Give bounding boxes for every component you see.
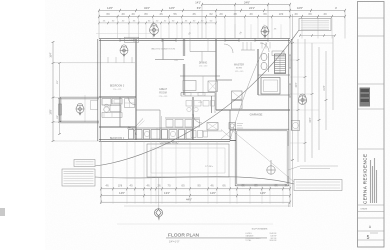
top dim extension lines [117, 18, 119, 39]
wall step garage [229, 130, 231, 141]
ceiling fan great room tag [150, 24, 159, 37]
interior wall mud west [215, 80, 217, 110]
bottom dim row 1 [101, 188, 290, 190]
right extension lines [290, 42, 333, 44]
left wing closet [91, 101, 98, 110]
interior wall garage north [216, 108, 290, 110]
interior wall masterbath west [256, 49, 258, 95]
interior wall hall left lower [134, 97, 136, 140]
bottom dim row 3 [101, 201, 290, 203]
title block divider 8 [358, 217, 385, 219]
bottom dim row 2 [101, 195, 290, 197]
bottom fixtures row [129, 130, 134, 140]
right dim line x326 [325, 51, 327, 130]
right dim line x319 [318, 47, 320, 150]
kitchen range [198, 93, 205, 96]
interior wall wc east [268, 53, 270, 72]
ceiling fan master tag [261, 26, 269, 38]
top dimension row 2 [99, 16, 345, 18]
fold line faint [117, 223, 273, 225]
mech pad outside [292, 121, 300, 131]
title block divider 1 [358, 17, 385, 19]
kitchen island [183, 81, 196, 91]
left wing wall west [58, 98, 60, 122]
hall wall segment [190, 51, 216, 53]
right dim line x292.5 [292, 14, 294, 207]
window marks right wall [289, 55, 291, 68]
wall bottom exterior [99, 138, 230, 140]
interior wall hall 2 [159, 110, 161, 140]
wall garage link [230, 140, 236, 142]
floor plan underline [166, 237, 267, 239]
title block stamp [360, 88, 371, 107]
right dim line x312 [311, 43, 313, 158]
top dimension row 0 [202, 4, 290, 6]
note box left large [62, 169, 95, 186]
door arc bedroom2 [128, 127, 136, 135]
wall garage top link [230, 129, 236, 131]
bottom dim right end tick [288, 203, 290, 207]
kitchen sink [185, 93, 191, 96]
interior wall hall [136, 109, 160, 111]
interior wall dining west lower [182, 64, 184, 95]
interior wall hall left [134, 39, 136, 97]
bath 2 fixtures [102, 99, 111, 106]
left wing wall south [60, 120, 99, 122]
leader to note [288, 166, 300, 170]
covered patio slab [147, 144, 229, 177]
window marks top wall [120, 39, 134, 41]
interior wall entry [162, 39, 164, 60]
laundry appliances [232, 91, 243, 100]
title block divider 6 [358, 204, 385, 206]
leader diagonal master [230, 43, 267, 140]
note garage floor box [294, 180, 342, 191]
right dim line x298 [297, 39, 299, 162]
interior wall kitchen north [180, 75, 220, 77]
interior wall bath3 [119, 97, 121, 127]
closet shelving [242, 42, 244, 50]
interior wall hall 2b [161, 116, 163, 140]
wall top exterior [99, 37, 290, 39]
wing interior dim [84, 95, 86, 122]
kitchen divider [202, 76, 204, 95]
bath tub bedroom wing [110, 106, 121, 112]
bottom dim row 4 faint [124, 205, 290, 207]
leader curve 1 (left notes to top-right note) [95, 30, 299, 166]
interior wall bedroom3 south [99, 95, 136, 97]
title block divider 9 [358, 230, 385, 232]
hall wall segment low [202, 130, 222, 132]
water heater [229, 123, 236, 130]
bottom extension lines [100, 141, 102, 204]
title block divider 3 [358, 83, 385, 85]
garage walls outer [235, 129, 289, 186]
hall closet [125, 99, 135, 108]
extension line x202 [201, 5, 203, 39]
door arc bedroom3 [128, 97, 136, 105]
door swing X [221, 130, 232, 140]
right dim line x305 [304, 39, 306, 162]
window tag diamond bottom [158, 177, 160, 209]
wall right exterior [288, 39, 290, 130]
title block address lines [370, 160, 372, 203]
left secondary dim [59, 63, 61, 134]
door arc master bath [260, 43, 269, 52]
garage door opening [287, 146, 289, 176]
left extension lines [53, 62, 135, 64]
linen at stair top [272, 51, 284, 56]
bottom fixture band wall [127, 127, 193, 129]
interior wall great room north [155, 59, 184, 61]
extension line x345 [344, 11, 346, 39]
left dimension line [52, 42, 54, 141]
interior wall masterbath south [258, 94, 290, 96]
door arc entry [193, 114, 202, 123]
covered patio inner line [151, 148, 225, 173]
leader wh to note [233, 131, 294, 182]
left wing window [59, 104, 62, 115]
wall left exterior [97, 39, 99, 141]
left margin smudge [0, 208, 5, 216]
roof overhang faint line [96, 33, 150, 35]
extension line x268 [267, 5, 269, 39]
slope annotation box [125, 37, 139, 42]
top dimension row 1 [99, 10, 345, 12]
kitchen cabinet row [186, 101, 192, 107]
interior wall masterbath north [258, 74, 290, 76]
title block divider 2 [358, 35, 385, 37]
kitchen dishwasher [208, 81, 218, 92]
top dimension row 3 [99, 22, 216, 24]
top dim sub-row right [300, 35, 335, 37]
title block divider 7 [358, 211, 385, 213]
master bath tub [261, 78, 280, 95]
pantry box [207, 123, 218, 131]
interior wall master south [216, 79, 232, 81]
title block border [358, 2, 385, 248]
door swing diagonals [135, 119, 143, 128]
water closet fixtures [261, 53, 267, 61]
title block divider 4 [358, 108, 385, 110]
bedroom3 closet band [107, 57, 109, 63]
title block divider 5 [358, 148, 385, 150]
note single line right [300, 165, 338, 167]
fan tag right dims [298, 94, 307, 104]
door arc master entry [224, 44, 233, 53]
interior wall mud east [229, 110, 231, 130]
interior wall center [191, 97, 193, 140]
extension line x235 [234, 5, 236, 39]
note box left small [74, 160, 95, 167]
extension line x216 [215, 11, 217, 39]
closet shelving 2 [261, 42, 263, 49]
note box top right [299, 19, 331, 31]
ceiling fan left wing [76, 103, 84, 115]
interior wall dining west upper [182, 39, 184, 56]
extension line x99 [98, 11, 100, 39]
patio fixture tag [267, 160, 275, 174]
garage walls inner [237, 131, 287, 184]
hall cabinets row [191, 131, 196, 138]
ceiling fan great room [120, 45, 128, 57]
extension line x290 [289, 5, 291, 39]
stairs [275, 54, 286, 74]
interior wall bedroom2 north [99, 125, 136, 127]
left wing wall north [60, 96, 99, 98]
right dim line x333 [332, 36, 334, 111]
scan noise overlay [0, 0, 1, 1]
leader curve 2 (left notes to garage note) [95, 177, 294, 184]
nook cabinetry upper row [165, 117, 200, 119]
interior wall master west [214, 39, 216, 80]
title block divider 10 [358, 239, 385, 241]
kitchen counters [181, 92, 215, 94]
